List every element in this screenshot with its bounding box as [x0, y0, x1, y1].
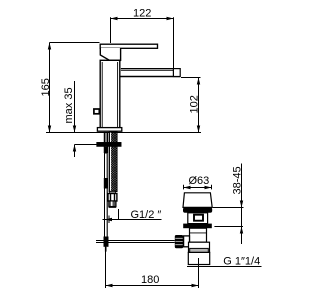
dimension 165: [40, 43, 100, 133]
base flange: [97, 128, 121, 132]
drain dome flange: [183, 193, 212, 208]
dimension 102: [181, 78, 201, 133]
drain window: [194, 215, 203, 221]
svg-text:180: 180: [141, 274, 159, 286]
dimension 122: [111, 8, 174, 69]
dimension 38-45: [213, 164, 244, 245]
drain dome shadow band: [183, 207, 212, 212]
drain tailpiece: [188, 252, 209, 264]
dimension O63: [184, 175, 212, 189]
threaded stud below deck: [104, 132, 108, 154]
rod clamp nut: [184, 236, 190, 247]
svg-text:165: 165: [40, 78, 52, 96]
drain centerline: [198, 258, 200, 286]
drain locknut: [183, 224, 212, 229]
body left small tab: [94, 109, 99, 114]
faucet body: [100, 60, 120, 127]
dimension max 35: [63, 81, 97, 157]
svg-text:max 35: max 35: [63, 87, 75, 123]
lever handle bar: [100, 44, 157, 48]
spout: [120, 69, 181, 77]
drain upper body: [188, 213, 208, 224]
rod clevis: [104, 237, 109, 247]
drain lower tube: [189, 242, 210, 252]
horizontal pop-up linkage rod: [96, 241, 175, 243]
label G1/2" leader: [103, 218, 162, 221]
mounting nut: [97, 142, 122, 146]
knurled knob: [175, 235, 183, 248]
dimension 180: [106, 245, 199, 289]
label G 1"1/4: [223, 255, 260, 267]
rod lower tip: [105, 247, 107, 252]
label G 1"1/4 leader: [187, 266, 262, 268]
gasket gray band: [190, 248, 209, 252]
svg-text:Ø63: Ø63: [189, 175, 210, 187]
rod black sleeve: [104, 178, 108, 189]
svg-text:38-45: 38-45: [231, 166, 243, 194]
handle pivot body: [100, 48, 120, 61]
svg-text:G1/2 ″: G1/2 ″: [131, 209, 162, 221]
svg-text:122: 122: [133, 8, 151, 20]
svg-text:G 1″1/4: G 1″1/4: [223, 255, 260, 267]
pop-up rod: [104, 148, 109, 252]
countertop line: [46, 132, 201, 134]
svg-text:102: 102: [189, 95, 201, 113]
hose end fitting G1/2: [108, 191, 117, 207]
thread end tick: [109, 209, 119, 223]
drain middle tube: [190, 228, 207, 242]
flexible hose (braided): [109, 132, 117, 192]
label G1/2": [131, 209, 162, 221]
spout end cap: [173, 69, 180, 77]
